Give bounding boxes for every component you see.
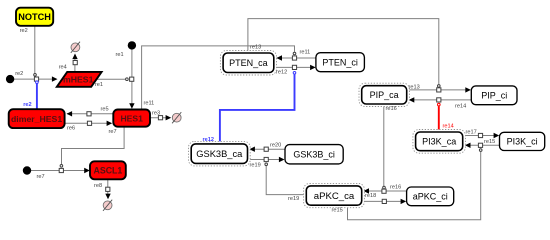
svg-text:re17: re17 xyxy=(466,130,477,136)
arrowhead re3 to sink xyxy=(166,115,172,120)
catalysis circle re13 xyxy=(438,85,441,88)
wire re8 degradation xyxy=(107,179,109,194)
species aPKC_ca xyxy=(304,183,365,207)
svg-text:re15: re15 xyxy=(484,139,495,145)
species aPKC_ci xyxy=(407,187,454,206)
wire re5 main xyxy=(67,113,113,115)
svg-text:re15: re15 xyxy=(332,208,343,214)
arrowhead re5 to dimer_HES1 xyxy=(67,111,73,116)
species GSK3B_ca xyxy=(189,141,251,166)
arrowhead re6 to HES1 xyxy=(107,121,113,126)
svg-text:re16: re16 xyxy=(386,106,397,112)
reaction square re20 xyxy=(264,147,268,151)
arrowhead re1 to HES1 xyxy=(129,103,134,109)
reaction square re11 xyxy=(292,56,296,60)
svg-text:re12: re12 xyxy=(203,137,215,143)
svg-text:dimer_HES1: dimer_HES1 xyxy=(11,114,62,124)
svg-text:aPKC_ci: aPKC_ci xyxy=(413,192,448,202)
degradation sink re3 sink xyxy=(172,112,181,123)
catalysis circle re12 blue xyxy=(293,72,296,75)
reaction square re7 xyxy=(59,168,63,172)
wire re4 degradation xyxy=(74,55,76,72)
catalysis circle re2 blue xyxy=(36,81,39,84)
svg-text:re19: re19 xyxy=(250,163,261,169)
wire re12 main xyxy=(275,66,311,68)
wire re15 main xyxy=(470,144,500,146)
reaction square re1 xyxy=(130,77,134,81)
svg-text:re4: re4 xyxy=(59,65,67,71)
reaction square re2 xyxy=(34,77,38,81)
svg-text:PIP_ci: PIP_ci xyxy=(481,91,507,101)
reaction square re12 xyxy=(292,65,296,69)
species NOTCH xyxy=(16,8,53,26)
reaction square re14 xyxy=(437,98,441,102)
svg-text:re3: re3 xyxy=(152,111,160,117)
wire re20 main xyxy=(254,148,285,150)
svg-text:re5: re5 xyxy=(101,107,109,113)
wire re18 main xyxy=(363,200,401,202)
wire re12 catalysis from GSK3B_ca (blue) xyxy=(220,74,295,141)
wire re13 main xyxy=(409,89,466,91)
degradation sink re4 sink xyxy=(71,42,80,53)
arrowhead re11 to PTEN_ca xyxy=(276,55,282,60)
svg-text:ASCL1: ASCL1 xyxy=(93,166,122,176)
species mHES1 (RNA) xyxy=(57,72,102,87)
arrowhead re7 to ASCL1 xyxy=(84,168,90,173)
svg-text:mHES1: mHES1 xyxy=(63,75,94,85)
catalysis circle re1 xyxy=(126,78,129,81)
arrowhead re2 to mHES1 xyxy=(52,76,58,81)
reaction square re17 xyxy=(478,133,482,137)
species PIP_ca xyxy=(359,83,409,106)
species HES1 xyxy=(113,110,150,127)
svg-text:re20: re20 xyxy=(270,143,281,149)
wire re6 main xyxy=(65,122,107,124)
svg-text:re7: re7 xyxy=(37,174,45,180)
catalysis circle re14 red xyxy=(438,103,441,106)
wire re2 repression (blue) xyxy=(36,81,38,109)
source node re2 source xyxy=(6,75,13,82)
species PI3K_ci xyxy=(500,132,545,150)
svg-text:re14: re14 xyxy=(443,123,454,129)
wire re11 catalysis from HES1 xyxy=(142,46,295,110)
reaction square re16 xyxy=(382,189,386,193)
species PTEN_ca xyxy=(220,51,276,76)
arrowhead re18 to aPKC_ci xyxy=(401,199,407,204)
wire re15 catalysis from aPKC_ca xyxy=(348,152,481,220)
wire re11 main xyxy=(276,57,316,59)
catalysis circle re15 xyxy=(479,149,482,152)
species GSK3B_ci xyxy=(285,145,343,164)
reaction square re3 xyxy=(158,116,162,120)
species dimer_HES1 xyxy=(9,109,65,128)
svg-text:re2: re2 xyxy=(15,71,23,77)
wire re1 catalysis from mHES1 xyxy=(97,78,126,80)
svg-text:PIP_ca: PIP_ca xyxy=(370,90,399,100)
reaction square re19 xyxy=(264,157,268,161)
arrowhead re20 to GSK3B_ca xyxy=(249,147,255,152)
svg-text:re7: re7 xyxy=(109,129,117,135)
arrowhead re12 to PTEN_ci xyxy=(310,65,316,70)
species PIP_ci xyxy=(471,86,517,105)
catalysis circle re19 xyxy=(265,163,268,166)
svg-text:NOTCH: NOTCH xyxy=(18,12,51,22)
wire re7 catalysis from HES1 xyxy=(62,127,125,165)
svg-text:PTEN_ci: PTEN_ci xyxy=(322,57,358,67)
catalysis circle re11 xyxy=(293,52,296,55)
svg-text:PTEN_ca: PTEN_ca xyxy=(229,58,268,68)
arrowhead re16 to aPKC_ca xyxy=(363,188,369,193)
wire re14 catalysis from PI3K_ca (red) xyxy=(438,106,440,130)
svg-text:GSK3B_ci: GSK3B_ci xyxy=(293,149,335,159)
wire re3 degradation xyxy=(150,117,167,119)
species PI3K_ca xyxy=(413,130,466,154)
svg-text:re12: re12 xyxy=(276,69,287,75)
source node re7 source xyxy=(23,167,30,174)
wire re16 main xyxy=(368,190,407,192)
svg-text:aPKC_ca: aPKC_ca xyxy=(314,191,355,202)
reaction square re4 xyxy=(73,61,77,65)
wire re7 main xyxy=(31,170,86,172)
wire re13 catalysis from PTEN_ca xyxy=(248,19,439,85)
species PTEN_ci xyxy=(316,53,365,72)
svg-text:re1: re1 xyxy=(95,82,103,88)
arrowhead re14 to PIP_ca xyxy=(409,97,415,102)
species ASCL1 xyxy=(90,161,126,179)
wire re16 catalysis from PIP_ca xyxy=(383,106,385,186)
svg-text:HES1: HES1 xyxy=(120,113,143,123)
svg-text:re13: re13 xyxy=(250,45,261,51)
catalysis circle re2 xyxy=(34,74,37,77)
svg-text:re14: re14 xyxy=(455,103,466,109)
wire re14 main xyxy=(414,99,472,101)
arrowhead re4 to sink xyxy=(72,54,77,60)
arrowhead re8 to sink xyxy=(105,194,110,200)
svg-text:re13: re13 xyxy=(409,85,420,91)
svg-text:re11: re11 xyxy=(144,101,155,107)
degradation sink re8 sink xyxy=(103,200,112,211)
catalysis circle re7 xyxy=(60,165,63,168)
svg-text:re19: re19 xyxy=(288,196,299,202)
wire re17 main xyxy=(465,135,494,137)
svg-text:re1: re1 xyxy=(116,52,124,58)
arrowhead re19 to GSK3B_ci xyxy=(279,157,285,162)
svg-text:re11: re11 xyxy=(300,50,311,56)
source node re1 source xyxy=(128,42,135,49)
wire re19 catalysis from aPKC_ca xyxy=(266,166,304,195)
reaction square re15 xyxy=(478,143,482,147)
svg-text:GSK3B_ca: GSK3B_ca xyxy=(196,149,243,159)
svg-text:re2: re2 xyxy=(20,28,28,34)
arrowhead re17 to PI3K_ci xyxy=(494,133,500,138)
svg-text:re18: re18 xyxy=(365,193,376,199)
reaction square re8 xyxy=(106,187,110,191)
wire re2 main xyxy=(14,78,57,80)
arrowhead re15 to PI3K_ca xyxy=(465,143,471,148)
svg-text:PI3K_ci: PI3K_ci xyxy=(507,137,538,147)
svg-text:re8: re8 xyxy=(94,183,102,189)
wire NOTCH to re2 xyxy=(34,26,36,73)
wire re1 main xyxy=(131,49,133,105)
reaction square re5 xyxy=(87,112,91,116)
reaction square re18 xyxy=(382,199,386,203)
svg-text:re16: re16 xyxy=(390,185,401,191)
svg-text:re2: re2 xyxy=(23,102,31,108)
reaction square re13 xyxy=(437,88,441,92)
arrowhead re13 to PIP_ci xyxy=(465,87,471,92)
reaction square re6 xyxy=(87,121,91,125)
wire re19 main xyxy=(248,159,279,161)
svg-text:PI3K_ca: PI3K_ca xyxy=(422,137,456,147)
svg-text:re6: re6 xyxy=(67,126,75,132)
catalysis circle re16 xyxy=(383,186,386,189)
